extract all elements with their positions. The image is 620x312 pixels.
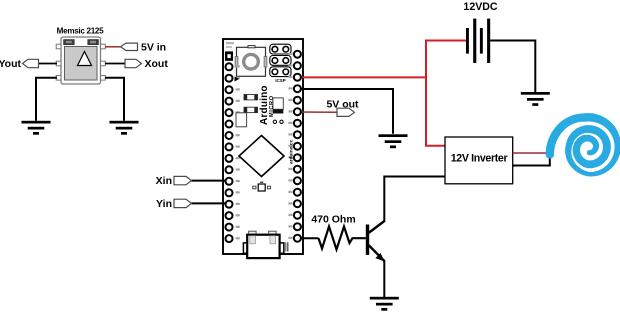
node Xout flag — [125, 59, 142, 67]
svg-text:Yout: Yout — [0, 58, 21, 70]
USB connector — [243, 231, 288, 258]
EL wire spiral — [546, 113, 620, 176]
svg-text:arduino.cc: arduino.cc — [289, 139, 295, 164]
Arduino Micro board outline — [223, 39, 303, 254]
wire 5V out (red) — [297, 111, 337, 113]
ground GND1 — [22, 121, 51, 135]
svg-text:5V out: 5V out — [326, 99, 359, 111]
wire inverter to EL wire (red) — [513, 152, 550, 154]
wire U1 left ground — [36, 78, 57, 121]
svg-text:Xin: Xin — [156, 175, 172, 187]
wire D? to resistor — [297, 237, 318, 239]
ground GND3 (arduino) — [379, 134, 408, 148]
reset button — [235, 46, 267, 77]
node Yin flag — [174, 199, 192, 207]
left header pins — [226, 63, 240, 242]
ICSP header — [270, 44, 291, 76]
node Xin flag — [174, 176, 192, 184]
resistor R1 470 Ohm — [319, 227, 366, 250]
label Arduino MICRO — [259, 85, 275, 125]
right header pins — [288, 51, 301, 242]
node Yout flag — [23, 59, 39, 67]
wire battery negative to ground — [490, 41, 535, 93]
svg-text:Memsic 2125: Memsic 2125 — [57, 27, 104, 36]
ground GND5 (emitter) — [370, 297, 399, 311]
board mark wedge — [235, 77, 240, 82]
wire inverter to EL wire (black return) — [513, 154, 550, 166]
wire 12V bus (red) — [426, 41, 467, 146]
svg-text:470 Ohm: 470 Ohm — [311, 214, 355, 226]
accelerometer U1 body — [61, 37, 101, 84]
svg-text:ICSP: ICSP — [275, 78, 285, 83]
wire Xin to board pin — [192, 180, 230, 182]
board components mid — [236, 95, 283, 127]
board silkscreen marks top-left — [226, 42, 234, 48]
ground GND2 — [110, 121, 139, 135]
inverter box — [445, 137, 513, 184]
wire U1 right ground — [105, 78, 124, 121]
node 5V out flag — [337, 108, 355, 116]
wire Yin to board pin — [192, 202, 230, 204]
ground GND4 (battery) — [521, 92, 550, 106]
svg-text:5V in: 5V in — [141, 42, 166, 54]
wire VIN to 12V bus (red) — [297, 76, 426, 78]
wire inverter to transistor collector — [384, 177, 445, 222]
svg-text:Xout: Xout — [145, 58, 169, 70]
svg-text:MICRO: MICRO — [269, 95, 275, 117]
accelerometer U1 pins — [56, 44, 105, 80]
wire transistor emitter to ground — [383, 260, 385, 297]
pin D13 square pad — [225, 51, 233, 60]
wire 5V in to U1 (red) — [105, 46, 121, 48]
board component below diamond — [253, 182, 271, 192]
battery BT1 12VDC — [466, 19, 490, 63]
svg-text:12V Inverter: 12V Inverter — [451, 153, 508, 165]
transistor Q1 (NPN) — [366, 221, 385, 262]
wire Xout to U1 — [105, 63, 125, 65]
svg-text:Yin: Yin — [156, 198, 172, 210]
node 5V in flag — [121, 43, 138, 50]
processor chip (diamond) — [239, 136, 284, 177]
wire Yout to U1 — [38, 63, 57, 65]
svg-text:12VDC: 12VDC — [463, 1, 497, 13]
wire GND to ground (black) — [297, 89, 393, 134]
